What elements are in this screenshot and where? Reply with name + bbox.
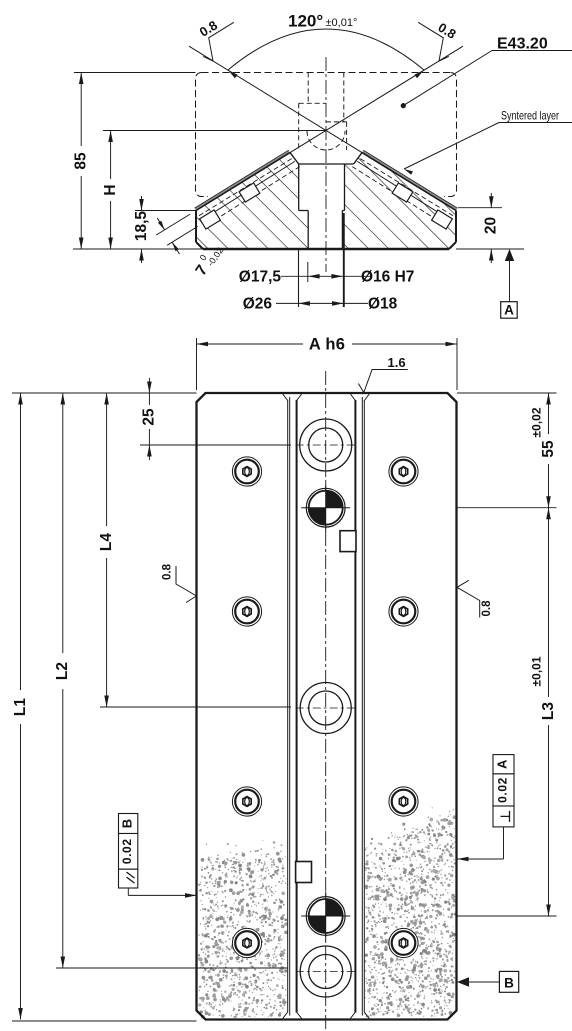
svg-text:0.8: 0.8 [162, 563, 174, 580]
svg-text:B: B [119, 819, 134, 828]
svg-text:25: 25 [141, 408, 158, 426]
svg-text:±0,02: ±0,02 [529, 407, 543, 437]
svg-text:L1: L1 [12, 698, 29, 716]
svg-text:85: 85 [73, 152, 90, 170]
svg-text:A h6: A h6 [309, 336, 345, 354]
svg-text:Ø17,5: Ø17,5 [239, 269, 282, 286]
svg-text:Ø18: Ø18 [368, 296, 398, 313]
svg-text:1.6: 1.6 [388, 355, 406, 370]
svg-text:0.02: 0.02 [120, 838, 134, 864]
svg-text:0.8: 0.8 [481, 600, 493, 617]
svg-text:A: A [495, 759, 510, 769]
svg-text:55: 55 [540, 440, 557, 458]
svg-text:L3: L3 [540, 702, 557, 720]
svg-text:A: A [504, 303, 514, 318]
svg-text:120°: 120° [288, 12, 323, 31]
svg-text:E43.20: E43.20 [497, 36, 548, 53]
svg-text:H: H [102, 184, 119, 195]
svg-text:L4: L4 [98, 533, 115, 551]
svg-text:L2: L2 [54, 662, 71, 680]
svg-text:±0,01°: ±0,01° [326, 17, 358, 29]
svg-text:0.02: 0.02 [495, 777, 509, 803]
svg-text:Ø16 H7: Ø16 H7 [361, 269, 414, 286]
svg-text:20: 20 [483, 217, 500, 234]
svg-text:Ø26: Ø26 [243, 296, 273, 313]
svg-text:Syntered layer: Syntered layer [501, 109, 559, 123]
svg-text:B: B [504, 976, 514, 991]
svg-text:±0,01: ±0,01 [529, 656, 543, 686]
svg-text:18,5: 18,5 [133, 211, 150, 242]
